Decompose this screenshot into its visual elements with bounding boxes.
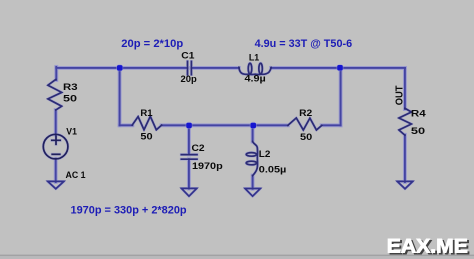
bottom edge line bbox=[0, 255, 474, 257]
svg-text:V1: V1 bbox=[66, 126, 77, 136]
svg-text:50: 50 bbox=[411, 126, 425, 136]
wire R4 to ground bbox=[404, 135, 406, 182]
wire L2 to ground bbox=[252, 176, 254, 189]
svg-text:R3: R3 bbox=[63, 82, 78, 92]
svg-text:4.9µ: 4.9µ bbox=[245, 74, 266, 84]
component halo layer bbox=[43, 61, 413, 196]
wire core layer bbox=[56, 67, 405, 189]
svg-text:R2: R2 bbox=[299, 108, 312, 118]
svg-text:AC 1: AC 1 bbox=[66, 170, 86, 180]
node C junction bbox=[250, 122, 257, 129]
wire node B down to C2 bbox=[188, 125, 190, 154]
wire R2 to right corner bbox=[322, 124, 341, 126]
svg-text:OUT: OUT bbox=[394, 86, 405, 106]
wire C2 to ground bbox=[188, 159, 190, 188]
svg-text:0.05µ: 0.05µ bbox=[259, 164, 287, 174]
resistor R2 bbox=[288, 118, 322, 130]
svg-text:C1: C1 bbox=[181, 51, 194, 61]
wire node A down bbox=[119, 68, 121, 125]
ground (V1) bbox=[48, 181, 64, 188]
resistor R1 bbox=[132, 116, 162, 130]
resistor R3 bbox=[48, 79, 62, 110]
wire R3 to V1 bbox=[55, 110, 57, 135]
wire halo layer bbox=[56, 67, 405, 189]
ground (C2) bbox=[181, 188, 196, 196]
voltage source V1 bbox=[43, 134, 68, 159]
svg-text:C2: C2 bbox=[192, 143, 205, 153]
inductor L2 bbox=[253, 141, 258, 175]
svg-text:R4: R4 bbox=[411, 108, 427, 118]
wire R1 to R2 middle bbox=[162, 124, 289, 126]
svg-text:EAX.ME: EAX.ME bbox=[387, 236, 468, 258]
node A junction bbox=[116, 64, 123, 71]
ground (R4) bbox=[397, 181, 413, 188]
svg-text:20p: 20p bbox=[181, 74, 198, 84]
watermark EAX.ME bbox=[387, 236, 470, 259]
svg-text:L1: L1 bbox=[249, 52, 259, 62]
wire top-left horizontal bbox=[56, 67, 187, 69]
svg-text:1970p = 330p + 2*820p: 1970p = 330p + 2*820p bbox=[71, 204, 188, 216]
svg-text:50: 50 bbox=[63, 93, 77, 103]
wire corner to R1 bbox=[120, 124, 133, 126]
wire top-right corner down to R4 bbox=[404, 68, 406, 109]
capacitor C2 plates bbox=[181, 155, 197, 160]
svg-text:20p = 2*10p: 20p = 2*10p bbox=[121, 38, 183, 50]
wire right riser to node D bbox=[340, 67, 342, 125]
node B junction bbox=[185, 122, 192, 129]
svg-text:50: 50 bbox=[140, 131, 152, 141]
svg-text:1970p: 1970p bbox=[192, 161, 223, 171]
ground (L2) bbox=[245, 189, 260, 197]
wire top-right horizontal bbox=[271, 67, 405, 69]
svg-text:R1: R1 bbox=[140, 108, 152, 118]
resistor R4 bbox=[399, 108, 412, 135]
wire left vertical top bbox=[55, 67, 57, 80]
capacitor C1 plates bbox=[188, 61, 192, 74]
svg-text:4.9u = 33T @ T50-6: 4.9u = 33T @ T50-6 bbox=[255, 38, 353, 50]
wire node C down to L2 bbox=[252, 125, 254, 141]
svg-text:50: 50 bbox=[300, 132, 312, 142]
inductor L1 bbox=[239, 67, 271, 74]
wire top between C1 and L1 bbox=[191, 67, 239, 69]
node D junction bbox=[336, 64, 343, 71]
svg-text:L2: L2 bbox=[259, 149, 271, 159]
wire V1 to ground bbox=[55, 159, 57, 182]
